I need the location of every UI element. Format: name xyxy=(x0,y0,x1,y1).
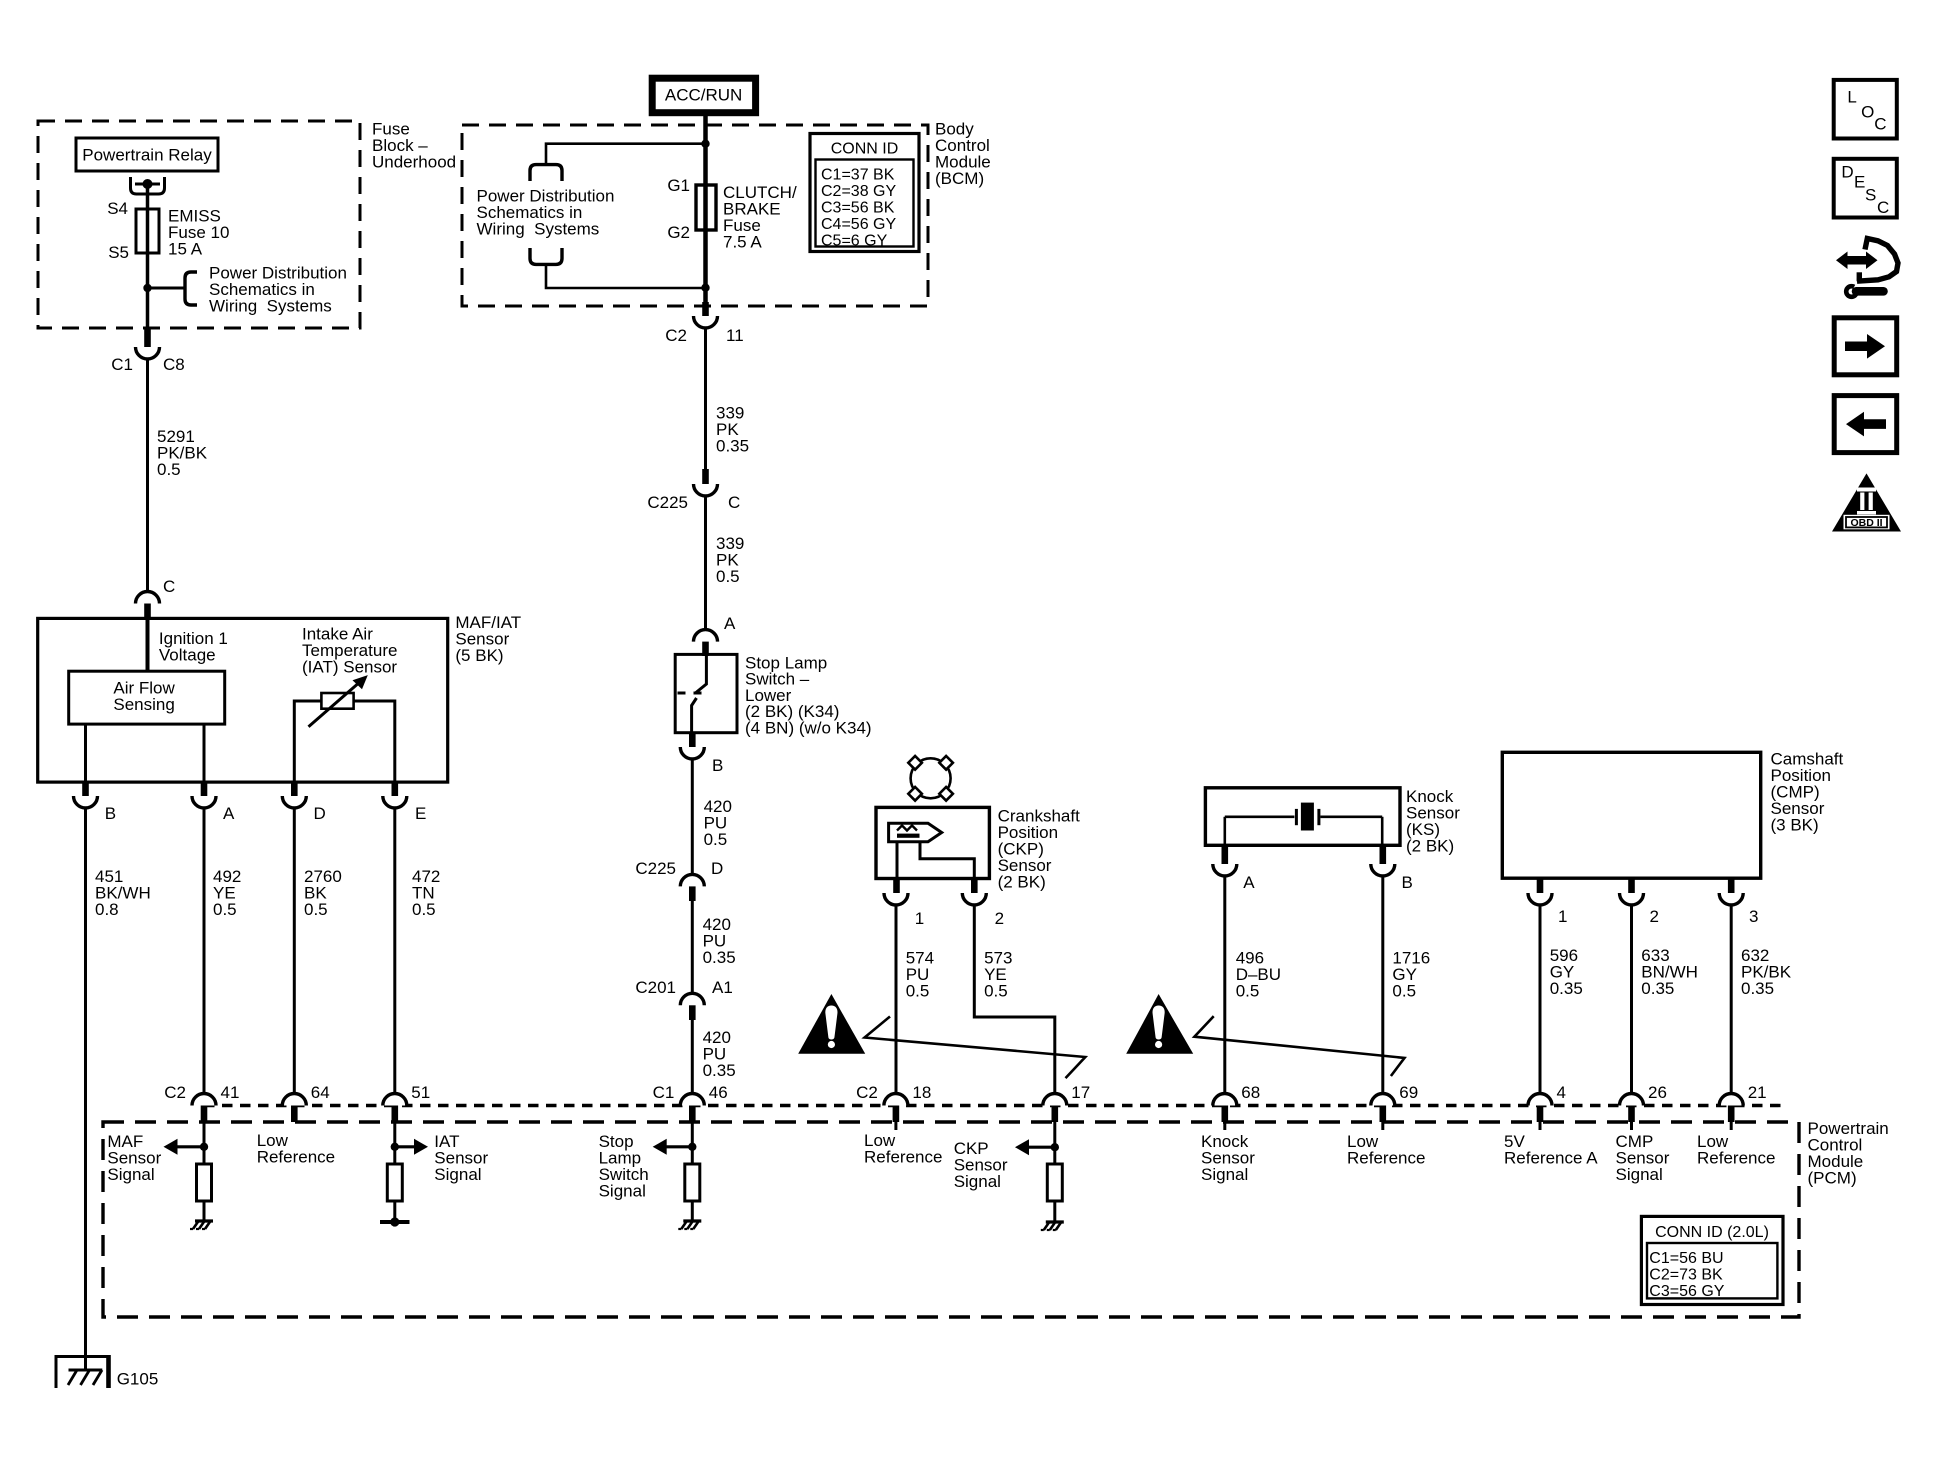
svg-text:C: C xyxy=(728,493,740,512)
svg-text:C: C xyxy=(163,577,175,596)
junction node top xyxy=(701,140,709,148)
power distribution reference bracket xyxy=(185,272,197,305)
wire resistor to ground MAF xyxy=(203,1201,206,1221)
wire label 633 BN/WH 0.35 xyxy=(1641,946,1698,998)
svg-text:E: E xyxy=(1854,173,1865,192)
MAF signal arrow xyxy=(164,1139,205,1155)
pin 2 of CKP xyxy=(962,879,986,906)
junction dot xyxy=(143,284,151,292)
wire 573 YE xyxy=(974,905,1055,1094)
wire pin4 stub inside xyxy=(1539,1122,1542,1130)
CKP sensor gear icon xyxy=(908,756,953,801)
PCM pin header dotted line xyxy=(204,1104,1785,1107)
svg-text:Signal: Signal xyxy=(434,1165,481,1184)
wire 574 PU xyxy=(895,905,898,1094)
svg-text:64: 64 xyxy=(311,1083,330,1102)
junction dot pin 17 xyxy=(1051,1143,1059,1151)
svg-text:7.5 A: 7.5 A xyxy=(723,233,762,252)
svg-text:CONN ID: CONN ID xyxy=(831,141,899,158)
Knock Sensor label xyxy=(1406,787,1460,856)
svg-text:C1: C1 xyxy=(653,1083,675,1102)
wire 633 BN/WH xyxy=(1630,905,1633,1094)
wire 596 GY xyxy=(1539,905,1542,1094)
svg-text:3: 3 xyxy=(1749,907,1758,926)
svg-text:1: 1 xyxy=(915,909,924,928)
CONN ID table BCM xyxy=(810,134,919,252)
wire label 574 PU 0.5 xyxy=(906,948,934,1000)
svg-text:C2: C2 xyxy=(164,1083,186,1102)
Power Distribution Schematics label (fuse block) xyxy=(209,264,347,316)
PCM pin 17 xyxy=(1043,1094,1067,1123)
wire pin17 to resistor xyxy=(1053,1122,1056,1164)
svg-text:C4=56 GY: C4=56 GY xyxy=(821,216,896,233)
wire 1716 GY xyxy=(1381,876,1384,1094)
svg-text:C8: C8 xyxy=(163,355,185,374)
back arrow icon xyxy=(1834,396,1897,453)
PCM pin 21 xyxy=(1719,1094,1743,1123)
Intake Air Temperature label xyxy=(302,625,397,677)
svg-text:C: C xyxy=(1874,115,1886,134)
svg-text:0.5: 0.5 xyxy=(304,900,328,919)
Low Reference label pin 21 xyxy=(1697,1132,1775,1168)
wire 420 PU 0.35 lower xyxy=(691,1020,694,1094)
svg-text:A: A xyxy=(223,804,235,823)
CKP Sensor Signal label xyxy=(954,1139,1008,1191)
EMISS fuse label xyxy=(168,207,229,259)
wire label 420 PU 0.5 xyxy=(704,797,732,849)
air flow sensing box xyxy=(69,671,225,724)
fuse EMISS Fuse 10 15 A xyxy=(136,209,159,253)
MAF/IAT sensor box xyxy=(38,618,448,782)
Powertrain Control Module label xyxy=(1808,1119,1889,1188)
svg-text:B: B xyxy=(712,756,723,775)
wire 5291 PK/BK xyxy=(146,359,149,592)
svg-text:Sensing: Sensing xyxy=(113,695,174,714)
wire 472 TN xyxy=(393,808,396,1094)
CKP sensor box xyxy=(876,807,989,878)
svg-text:68: 68 xyxy=(1241,1083,1260,1102)
svg-text:26: 26 xyxy=(1648,1083,1667,1102)
svg-text:2: 2 xyxy=(995,909,1004,928)
svg-text:(IAT) Sensor: (IAT) Sensor xyxy=(302,658,397,677)
svg-text:C225: C225 xyxy=(647,493,688,512)
connector C225 D xyxy=(680,874,704,901)
svg-text:Wiring Systems: Wiring Systems xyxy=(477,220,600,239)
wire pin21 stub inside xyxy=(1730,1122,1733,1130)
pin A of KS xyxy=(1213,845,1237,876)
svg-text:Signal: Signal xyxy=(954,1172,1001,1191)
wire resistor to ground CKP xyxy=(1053,1201,1056,1222)
wire label 492 YE 0.5 xyxy=(213,867,241,919)
svg-text:0.5: 0.5 xyxy=(716,567,740,586)
wire 339 PK 0.35 xyxy=(704,328,707,469)
CKP internal leads xyxy=(896,842,899,879)
wire label 1716 GY 0.5 xyxy=(1392,948,1430,1000)
wire MAF A internal xyxy=(203,724,206,782)
wire pin26 stub inside xyxy=(1630,1122,1633,1130)
Ignition 1 Voltage label xyxy=(159,629,228,665)
svg-text:0.5: 0.5 xyxy=(412,900,436,919)
svg-text:C: C xyxy=(1877,198,1889,217)
switch contacts xyxy=(678,654,707,732)
DESC icon xyxy=(1834,159,1897,218)
MAF Sensor Signal label xyxy=(107,1132,161,1184)
PCM pin 18 xyxy=(884,1094,908,1123)
svg-text:Voltage: Voltage xyxy=(159,646,216,665)
svg-text:O: O xyxy=(1861,102,1874,121)
wire branch bottom xyxy=(546,264,706,288)
PCM pin 4 xyxy=(1528,1094,1552,1123)
svg-text:L: L xyxy=(1847,88,1856,107)
fuse CLUTCH/BRAKE 7.5A xyxy=(696,185,716,230)
svg-text:G2: G2 xyxy=(667,223,690,242)
svg-text:Reference: Reference xyxy=(1347,1149,1425,1168)
5V Reference A label xyxy=(1504,1132,1598,1168)
pin 2 of CMP xyxy=(1620,878,1644,905)
Fuse Block label xyxy=(372,120,456,172)
pin E of MAF xyxy=(383,782,407,808)
svg-text:(4 BN) (w/o K34): (4 BN) (w/o K34) xyxy=(745,718,872,737)
wire label 420 PU 0.35 xyxy=(703,915,736,967)
svg-text:C2=73 BK: C2=73 BK xyxy=(1649,1267,1723,1284)
ground G105 xyxy=(56,1355,110,1388)
junction dot pin 41 xyxy=(200,1143,208,1151)
wire IAT D internal xyxy=(294,701,321,782)
connector A into switch xyxy=(694,630,718,656)
wire ignition 1 voltage xyxy=(146,618,150,671)
pin B of MAF xyxy=(74,782,98,808)
svg-text:0.35: 0.35 xyxy=(1550,979,1583,998)
svg-text:46: 46 xyxy=(709,1083,728,1102)
svg-text:Reference: Reference xyxy=(1697,1149,1775,1168)
wire label 5291 PK/BK 0.5 xyxy=(157,427,208,479)
wire 451 BK/WH to G105 xyxy=(84,808,87,1356)
Stop Lamp Switch label xyxy=(745,654,872,738)
wire 2760 BK xyxy=(293,808,296,1094)
svg-text:A1: A1 xyxy=(712,978,733,997)
Power Distribution Schematics label (BCM) xyxy=(477,187,615,239)
IAT thermistor symbol xyxy=(309,675,368,727)
resistor IAT xyxy=(387,1164,402,1201)
wire label 472 TN 0.5 xyxy=(412,867,440,919)
svg-text:15 A: 15 A xyxy=(168,240,203,259)
warning triangle CKP xyxy=(798,994,865,1054)
svg-text:0.5: 0.5 xyxy=(157,460,181,479)
Low Reference label pin 18 xyxy=(864,1131,942,1167)
svg-text:Signal: Signal xyxy=(107,1165,154,1184)
svg-text:C2: C2 xyxy=(665,326,687,345)
svg-text:17: 17 xyxy=(1071,1083,1090,1102)
ACC/RUN power feed box xyxy=(652,78,755,113)
wire 496 D-BU xyxy=(1223,876,1226,1094)
wire pin41 to resistor xyxy=(203,1122,206,1164)
wire 339 PK 0.5 xyxy=(704,496,707,629)
svg-text:S4: S4 xyxy=(107,199,128,218)
svg-text:D: D xyxy=(1841,163,1853,182)
svg-text:0.35: 0.35 xyxy=(703,948,736,967)
svg-text:D: D xyxy=(314,804,326,823)
twisted pair marker CKP xyxy=(865,1017,1086,1079)
svg-text:Reference: Reference xyxy=(257,1148,335,1167)
svg-text:0.8: 0.8 xyxy=(95,900,119,919)
IAT Sensor Signal label xyxy=(434,1132,488,1184)
knock sensor internal leads xyxy=(1224,817,1227,846)
knock sensor crystal xyxy=(1225,803,1382,831)
LOC icon xyxy=(1834,80,1897,139)
wire 632 PK/BK xyxy=(1730,905,1733,1094)
connector C201 A1 xyxy=(680,993,704,1020)
svg-text:(5 BK): (5 BK) xyxy=(455,646,503,665)
junction dot pin 46 xyxy=(688,1143,696,1151)
svg-text:S5: S5 xyxy=(108,243,129,262)
svg-text:(BCM): (BCM) xyxy=(935,169,984,188)
svg-text:C3=56 GY: C3=56 GY xyxy=(1649,1283,1724,1300)
Low Reference label pin 69 xyxy=(1347,1132,1425,1168)
connector B below switch xyxy=(680,733,704,759)
svg-text:Underhood: Underhood xyxy=(372,153,456,172)
svg-text:Wiring Systems: Wiring Systems xyxy=(209,297,332,316)
wire pin69 stub inside xyxy=(1381,1122,1384,1130)
svg-text:4: 4 xyxy=(1557,1083,1566,1102)
svg-text:G105: G105 xyxy=(117,1370,159,1389)
connector C into MAF xyxy=(136,592,160,619)
svg-text:C2=38 GY: C2=38 GY xyxy=(821,183,896,200)
ground IAT xyxy=(380,1217,410,1226)
svg-text:Signal: Signal xyxy=(1201,1165,1248,1184)
PCM pin 41 xyxy=(192,1094,216,1123)
Knock Sensor Signal label xyxy=(1201,1132,1255,1184)
pin 1 of CKP xyxy=(884,879,908,906)
CLUTCH/BRAKE fuse label xyxy=(723,183,797,252)
PCM dashed box xyxy=(103,1122,1799,1317)
Crankshaft Position label xyxy=(998,807,1080,892)
wire fuse to junction xyxy=(146,253,150,329)
wire resistor to ground stop lamp xyxy=(691,1201,694,1221)
PCM pin 26 xyxy=(1620,1094,1644,1123)
diagnostic icon xyxy=(1836,239,1898,300)
relay contact symbol xyxy=(131,177,165,194)
svg-text:0.5: 0.5 xyxy=(704,830,728,849)
svg-text:C5=6 GY: C5=6 GY xyxy=(821,233,888,250)
svg-text:C2: C2 xyxy=(856,1083,878,1102)
connector C2 11 xyxy=(694,302,718,328)
connector C1 C8 xyxy=(136,329,160,359)
svg-text:B: B xyxy=(1402,873,1413,892)
svg-text:21: 21 xyxy=(1748,1083,1767,1102)
svg-text:ACC/RUN: ACC/RUN xyxy=(665,86,742,105)
pin D of MAF xyxy=(282,782,306,808)
wire junction to bracket xyxy=(148,287,187,290)
svg-text:C1=56 BU: C1=56 BU xyxy=(1649,1250,1723,1267)
wire ACC/RUN feed xyxy=(703,114,708,320)
junction node bottom xyxy=(701,284,709,292)
svg-text:G1: G1 xyxy=(667,176,690,195)
svg-text:18: 18 xyxy=(912,1083,931,1102)
CKP signal arrow xyxy=(1015,1139,1056,1155)
wire label 632 PK/BK 0.35 xyxy=(1741,946,1792,998)
svg-text:Reference A: Reference A xyxy=(1504,1149,1598,1168)
svg-text:0.5: 0.5 xyxy=(984,981,1008,1000)
reference bracket top xyxy=(530,165,562,181)
svg-text:S: S xyxy=(1865,186,1876,205)
svg-text:A: A xyxy=(1243,873,1255,892)
BCM dashed box xyxy=(462,125,928,306)
PCM pin 69 xyxy=(1371,1094,1395,1123)
svg-text:CONN ID (2.0L): CONN ID (2.0L) xyxy=(1655,1224,1769,1241)
pin B of KS xyxy=(1371,845,1395,876)
MAF/IAT Sensor label xyxy=(455,613,521,665)
svg-text:OBD II: OBD II xyxy=(1850,517,1882,529)
svg-text:C225: C225 xyxy=(635,859,676,878)
resistor CKP xyxy=(1047,1164,1062,1201)
svg-text:0.35: 0.35 xyxy=(1641,979,1674,998)
wire label 420 PU 0.35 lower xyxy=(703,1028,736,1080)
PCM pin 68 xyxy=(1213,1094,1237,1123)
IAT signal arrow xyxy=(395,1139,428,1155)
forward arrow icon xyxy=(1834,318,1897,375)
warning triangle KS xyxy=(1126,994,1193,1054)
svg-text:C1: C1 xyxy=(111,355,133,374)
fuse block underhood dashed box xyxy=(38,121,360,328)
Body Control Module label xyxy=(935,120,991,189)
wire label 596 GY 0.35 xyxy=(1550,946,1583,998)
svg-text:E: E xyxy=(415,804,426,823)
svg-text:C1=37 BK: C1=37 BK xyxy=(821,167,895,184)
wire resistor to ground IAT xyxy=(393,1201,396,1222)
svg-text:1: 1 xyxy=(1558,907,1567,926)
svg-text:(2 BK): (2 BK) xyxy=(998,873,1046,892)
ground MAF xyxy=(190,1221,213,1229)
svg-text:Signal: Signal xyxy=(1616,1165,1663,1184)
PCM pin 46 xyxy=(680,1094,704,1123)
svg-text:Reference: Reference xyxy=(864,1148,942,1167)
svg-text:Powertrain Relay: Powertrain Relay xyxy=(82,146,212,165)
reference bracket bottom xyxy=(530,248,562,264)
svg-text:0.5: 0.5 xyxy=(906,981,930,1000)
junction dot pin 51 xyxy=(391,1143,399,1151)
knock sensor box xyxy=(1205,788,1400,846)
Stop Lamp Switch Signal label xyxy=(599,1132,649,1201)
wire relay to fuse xyxy=(146,184,150,209)
svg-text:41: 41 xyxy=(221,1083,240,1102)
wire label 339 PK 0.35 xyxy=(716,404,749,456)
svg-text:51: 51 xyxy=(411,1083,430,1102)
resistor stop lamp xyxy=(685,1164,700,1201)
svg-text:(2 BK): (2 BK) xyxy=(1406,837,1454,856)
svg-text:C3=56 BK: C3=56 BK xyxy=(821,200,895,217)
svg-text:B: B xyxy=(105,804,116,823)
Camshaft Position label xyxy=(1771,750,1844,835)
svg-text:C201: C201 xyxy=(635,978,676,997)
Low Reference label pin 64 xyxy=(257,1131,335,1167)
svg-text:0.5: 0.5 xyxy=(213,900,237,919)
ground stop lamp xyxy=(678,1221,701,1229)
pin 1 of CMP xyxy=(1528,878,1552,905)
CMP sensor box xyxy=(1502,752,1760,878)
wire pin68 stub inside xyxy=(1223,1122,1226,1130)
CKP pickup symbol xyxy=(889,823,942,842)
OBD II icon xyxy=(1832,473,1901,531)
svg-text:11: 11 xyxy=(726,326,744,345)
wire IAT E internal xyxy=(354,701,395,782)
svg-text:Signal: Signal xyxy=(599,1182,646,1201)
svg-text:0.5: 0.5 xyxy=(1392,981,1416,1000)
CMP Sensor Signal label xyxy=(1616,1132,1670,1184)
svg-text:69: 69 xyxy=(1399,1083,1418,1102)
svg-text:0.35: 0.35 xyxy=(1741,979,1774,998)
resistor MAF xyxy=(197,1164,212,1201)
svg-text:0.5: 0.5 xyxy=(1236,981,1260,1000)
svg-text:0.35: 0.35 xyxy=(716,437,749,456)
wire branch to bracket top xyxy=(546,144,706,165)
wire label 496 D-BU 0.5 xyxy=(1236,948,1281,1000)
pin 3 of CMP xyxy=(1719,878,1743,905)
svg-text:2: 2 xyxy=(1650,907,1659,926)
CONN ID 2.0L table xyxy=(1641,1216,1783,1304)
wire 492 YE xyxy=(203,808,206,1094)
wire label 573 YE 0.5 xyxy=(984,948,1012,1000)
stop lamp signal arrow xyxy=(653,1139,693,1155)
powertrain relay box xyxy=(76,138,218,171)
stop lamp switch box xyxy=(675,654,737,732)
PCM pin 51 xyxy=(383,1094,407,1123)
svg-text:D: D xyxy=(711,859,723,878)
pin A of MAF xyxy=(192,782,216,808)
wire 420 PU 0.5 xyxy=(691,759,694,874)
wire label 339 PK 0.5 xyxy=(716,534,744,586)
svg-text:(PCM): (PCM) xyxy=(1808,1169,1857,1188)
wire label 451 BK/WH 0.8 xyxy=(95,867,151,919)
wire MAF B internal xyxy=(84,724,87,782)
PCM pin 64 xyxy=(282,1094,306,1123)
svg-text:0.35: 0.35 xyxy=(703,1061,736,1080)
wire 420 PU 0.35 upper xyxy=(691,901,694,993)
wire pin46 to resistor xyxy=(691,1122,694,1164)
ground CKP xyxy=(1041,1222,1064,1230)
svg-text:(3 BK): (3 BK) xyxy=(1771,816,1819,835)
wire pin18 stub inside xyxy=(894,1122,897,1130)
svg-text:A: A xyxy=(724,614,736,633)
connector C225 C xyxy=(694,469,718,496)
wire label 2760 BK 0.5 xyxy=(304,867,342,919)
wire pin51 to resistor xyxy=(393,1122,396,1164)
twisted pair marker KS xyxy=(1194,1016,1404,1076)
Air Flow Sensing label xyxy=(113,678,175,714)
